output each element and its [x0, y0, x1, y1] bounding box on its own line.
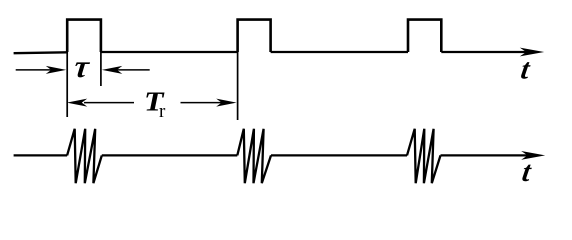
svg-text:r: r	[159, 101, 166, 122]
